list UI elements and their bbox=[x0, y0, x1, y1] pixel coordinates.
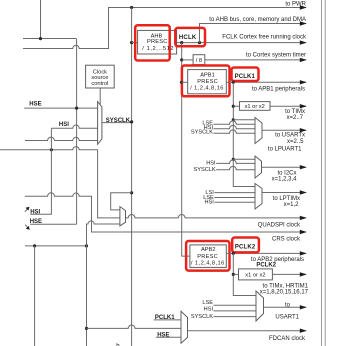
node SYSCLK output junction bbox=[130, 120, 133, 123]
wire LSE to USART1 mux bbox=[214, 304, 257, 306]
svg-text:APB1: APB1 bbox=[200, 72, 215, 78]
wire LSE to USART mux bbox=[214, 121, 256, 124]
wire PCLK2 rail down bbox=[233, 253, 256, 295]
node USART mux feed bbox=[232, 118, 235, 121]
svg-text:HSI: HSI bbox=[206, 160, 216, 166]
wire HCLK output line FCLK bbox=[177, 42, 306, 44]
node junction SYSCLK rail top bbox=[130, 6, 133, 9]
svg-text:FDCAN clock: FDCAN clock bbox=[269, 336, 306, 342]
wire PCLK1 to USART mux bbox=[233, 119, 255, 121]
arrow to Cortex system timer bbox=[300, 58, 307, 62]
wire x1orx2 to TIMx bbox=[270, 105, 306, 107]
svg-text:/ 1,2,4,8,16: / 1,2,4,8,16 bbox=[191, 260, 225, 266]
arrow to USARTx bbox=[300, 128, 307, 132]
wire to FDCAN mux middle input bbox=[87, 325, 182, 328]
wire PLL input into SYSCLK mux bbox=[25, 137, 98, 140]
wire vertical x86.5 up to QUADSPI mux input bbox=[87, 221, 120, 246]
wire I2C mux output bbox=[262, 166, 307, 168]
node PCLK2 rail tap bbox=[232, 252, 235, 255]
svg-text:USART1: USART1 bbox=[275, 314, 299, 320]
multiplier x1 or x2 box APB2 bbox=[239, 269, 273, 280]
node HCLK rail tap bbox=[180, 41, 183, 44]
wire FDCAN clock output bbox=[188, 330, 307, 332]
multiplier x1 or x2 box bbox=[240, 102, 271, 111]
wire HSE into SYSCLK mux bbox=[24, 107, 97, 109]
wire PCLK1 output line bbox=[226, 81, 306, 83]
node HSE rail junction bbox=[75, 107, 78, 110]
svg-text:HSI: HSI bbox=[59, 122, 69, 128]
wire HSE horizontal y39 bbox=[23, 38, 77, 40]
svg-text:x=1,2: x=1,2 bbox=[284, 202, 300, 208]
svg-text:LSE: LSE bbox=[202, 300, 213, 306]
arrow to USART1 bbox=[300, 305, 307, 309]
node PCLK1 rail tap bbox=[232, 81, 235, 84]
node FDCAN input tap bbox=[85, 327, 88, 330]
svg-text:control: control bbox=[91, 81, 108, 87]
highlight red box HCLK bbox=[175, 28, 205, 46]
arrow FCLK bbox=[300, 40, 307, 44]
wire SYSCLK mux output bbox=[102, 122, 132, 124]
wire SYSCLK to USART1 mux bbox=[214, 316, 257, 318]
mux I2C bbox=[255, 156, 262, 178]
wire vertical x86.5 down to bottom bbox=[86, 246, 88, 346]
arrow to PWR bbox=[300, 5, 307, 9]
arrow to LPTIMx bbox=[300, 190, 307, 194]
arrow CRS clock bbox=[300, 230, 307, 234]
wire SYSCLK vertical rail x131.6 bbox=[131, 8, 133, 346]
wire HSI to I2C mux bbox=[216, 160, 255, 163]
svg-text:PRESC: PRESC bbox=[147, 39, 168, 45]
svg-text:CRS clock: CRS clock bbox=[272, 236, 301, 242]
node junction HSE top bbox=[39, 37, 42, 40]
wire HSI to USART1 mux bbox=[214, 310, 257, 312]
svg-text:PCLK2: PCLK2 bbox=[235, 245, 256, 251]
wire /8 to Cortex timer bbox=[205, 59, 306, 61]
svg-text:HSI: HSI bbox=[204, 200, 214, 206]
highlight red box PCLK2 bbox=[232, 238, 259, 253]
wire USART mux output bbox=[262, 129, 306, 131]
svg-text:x1 or x2: x1 or x2 bbox=[245, 104, 265, 110]
svg-text:HSI: HSI bbox=[30, 210, 40, 216]
svg-text:FCLK Cortex free running clock: FCLK Cortex free running clock bbox=[222, 35, 307, 41]
wire HSE vertical rail x76.6 bbox=[76, 39, 78, 224]
node y245.9 left bbox=[33, 244, 36, 247]
node x1orx2 feed bbox=[232, 105, 235, 108]
highlight red box PCLK1 bbox=[232, 68, 259, 82]
svg-text:to: to bbox=[285, 302, 291, 308]
wire HSI to LPTIM mux bbox=[214, 201, 255, 203]
svg-text:HCLK: HCLK bbox=[179, 35, 197, 41]
wire LSE to LPTIM mux bbox=[214, 197, 255, 199]
wire HSE48? horizontal y245.9 bbox=[25, 245, 87, 247]
wire LPTIM mux output bbox=[262, 192, 306, 194]
svg-text:to LPUART1: to LPUART1 bbox=[268, 146, 302, 152]
svg-text:APB2: APB2 bbox=[201, 247, 216, 253]
mux SYSCLK bbox=[98, 102, 102, 145]
node APB1 input tap bbox=[180, 81, 183, 84]
wire PCLK1 to FDCAN mux bbox=[154, 319, 181, 321]
svg-text:HSI: HSI bbox=[204, 306, 214, 312]
node QUADSPI mux SYSCLK tap bbox=[130, 191, 133, 194]
arrow to TIMx bbox=[300, 104, 307, 108]
wire into x1 or x2 bbox=[233, 105, 239, 107]
wire USART1 mux output bbox=[264, 306, 307, 308]
node /8 feed bbox=[180, 58, 183, 61]
svg-text:PCLK2: PCLK2 bbox=[256, 262, 276, 268]
svg-text:to TIMx, HRTIM1: to TIMx, HRTIM1 bbox=[263, 284, 309, 290]
svg-text:to APB1 peripherals: to APB1 peripherals bbox=[252, 86, 305, 92]
wire HSI rail x51.4 bbox=[30, 128, 51, 214]
wire HCLK rail x181.7 down bbox=[182, 43, 190, 257]
prescaler APB2 PRESC box bbox=[190, 245, 226, 268]
node x1orx2 APB2 feed bbox=[232, 273, 235, 276]
arrow QUADSPI clock bbox=[300, 216, 307, 220]
mux USART1 bbox=[256, 291, 264, 321]
svg-text:x=2..5: x=2..5 bbox=[287, 139, 304, 145]
wire HSI distribution y149.8 bbox=[0, 147, 120, 218]
arrow FDCAN clock bbox=[300, 329, 307, 333]
arrow to TIMx HRTIM1 bbox=[300, 272, 307, 276]
mux USART bbox=[255, 118, 262, 144]
mux FDCAN bbox=[181, 311, 188, 343]
mux QUADSPI bbox=[120, 207, 126, 226]
svg-text:/ 8: / 8 bbox=[196, 58, 202, 64]
wire vertical x34.6 to bottom bbox=[34, 246, 36, 346]
box Clock source control bbox=[86, 65, 115, 88]
arrow to APB1 peripherals bbox=[300, 80, 307, 84]
svg-text:PCLK1: PCLK1 bbox=[235, 74, 256, 80]
svg-text:x1 or x2: x1 or x2 bbox=[245, 273, 265, 279]
prescaler AHB PRESC box bbox=[138, 30, 177, 54]
wire SYSCLK to I2C mux bbox=[216, 166, 255, 169]
wire SYSCLK to USART mux bbox=[214, 130, 256, 133]
divider /8 box bbox=[193, 55, 205, 65]
wire to AHB bus riser bbox=[200, 24, 307, 43]
mux LPTIM bbox=[255, 184, 262, 210]
arrow to I2Cx bbox=[300, 165, 307, 169]
svg-text:x=1,2,3,4: x=1,2,3,4 bbox=[272, 177, 298, 183]
svg-text:to I2Cx: to I2Cx bbox=[277, 170, 296, 176]
wire LSI to LPTIM mux bbox=[214, 192, 255, 194]
node HSI junction bbox=[50, 148, 53, 151]
svg-text:SYSCLK: SYSCLK bbox=[106, 118, 131, 124]
svg-text:to PWR: to PWR bbox=[285, 2, 306, 8]
arrow HSI up-right connector bbox=[25, 209, 28, 212]
svg-text:HSE: HSE bbox=[29, 102, 41, 108]
highlight red box APB2 PRESC bbox=[186, 241, 229, 271]
arrow to APB2 peripherals bbox=[300, 251, 307, 255]
highlight red box AHB PRESC bbox=[135, 25, 170, 60]
svg-text:to AHB bus, core, memory and D: to AHB bus, core, memory and DMA bbox=[209, 17, 306, 23]
wire APB1 input bbox=[182, 81, 188, 83]
wire PCLK2 output line bbox=[226, 252, 306, 254]
svg-text:SYSCLK: SYSCLK bbox=[191, 314, 213, 320]
wire HSE to FDCAN mux bbox=[156, 336, 181, 338]
highlight red box APB1 PRESC bbox=[182, 66, 230, 97]
wire into x1 or x2 bbox=[233, 273, 238, 275]
wire into /8 bbox=[182, 59, 193, 61]
wire HSI to USART mux bbox=[214, 125, 256, 128]
node y245.9 right bbox=[85, 244, 88, 247]
wire HSE label line bbox=[30, 223, 76, 225]
wire PCLK1 rail down bbox=[233, 82, 255, 186]
svg-text:SYSCLK: SYSCLK bbox=[191, 130, 213, 136]
node I2C mux feed bbox=[232, 158, 235, 161]
right page border double line bbox=[321, 0, 323, 346]
node to AHB bus tap bbox=[198, 41, 201, 44]
svg-text:QUADSPI clock: QUADSPI clock bbox=[258, 222, 301, 228]
svg-text:PRESC: PRESC bbox=[197, 79, 218, 85]
arrow HSE down-right connector bbox=[25, 225, 28, 228]
svg-text:x=1,8,20,15,16,17: x=1,8,20,15,16,17 bbox=[260, 290, 309, 296]
svg-text:PRESC: PRESC bbox=[197, 254, 218, 260]
wire net to PWR: from left y48 up x108.5 right y7.5 bbox=[23, 8, 306, 49]
wire control to mux bbox=[99, 88, 101, 104]
arrow to AHB bus bbox=[300, 21, 307, 25]
wire HSI into SYSCLK mux bbox=[51, 125, 97, 128]
wire QUADSPI clock output bbox=[126, 215, 307, 218]
svg-text:to TIMx: to TIMx bbox=[285, 109, 305, 115]
svg-text:x=2..7: x=2..7 bbox=[286, 115, 303, 121]
svg-text:/ 1,2,4,8,16: / 1,2,4,8,16 bbox=[190, 86, 224, 92]
prescaler APB1 PRESC box bbox=[188, 70, 227, 94]
wire SYSCLK to QUADSPI mux bbox=[111, 193, 132, 210]
wire CRS source y196 bbox=[25, 193, 306, 232]
wire PCLK1 to I2C mux bbox=[233, 158, 255, 160]
svg-text:to USARTx: to USARTx bbox=[275, 133, 305, 139]
wire SYSCLK into AHB PRESC bbox=[132, 42, 138, 44]
node SYSCLK to AHB PRESC bbox=[130, 41, 133, 44]
wire HSE from top edge bbox=[40, 0, 42, 39]
wire x1orx2 to TIMx HRTIM bbox=[272, 273, 306, 275]
svg-text:to Cortex system timer: to Cortex system timer bbox=[246, 52, 306, 58]
svg-text:SYSCLK: SYSCLK bbox=[194, 167, 216, 173]
